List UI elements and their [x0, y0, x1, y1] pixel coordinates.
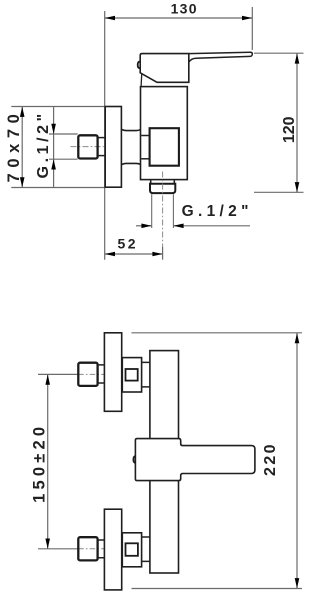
dim 150+-20 top ext line: [38, 373, 78, 375]
dim 150+-20 bottom ext line: [38, 548, 78, 550]
label G.1/2 left down arrow: [51, 124, 56, 134]
dim 150+-20 bottom arrow: [45, 539, 50, 549]
dim 130 right ext line: [251, 7, 253, 50]
neck fitting-to-flange bottom line: [98, 155, 105, 157]
dim 52 line: [105, 253, 163, 255]
outlet centerline solid lower part (52 right ext): [162, 247, 164, 260]
outlet collar (side view): [151, 180, 175, 183]
bottom connector block (front view): [122, 533, 141, 567]
dim 220 top arrow: [295, 333, 300, 343]
label G.1/2 left up arrow: [51, 159, 56, 169]
top wall flange (front view): [104, 333, 121, 412]
top inlet centerline (front view): [78, 373, 104, 375]
bottom inlet centerline (front view): [78, 548, 104, 550]
body (side view): [141, 87, 188, 180]
svg-text:130: 130: [171, 1, 198, 17]
outlet centerline vertical: [162, 172, 164, 248]
inlet fitting (side view, thick square): [78, 135, 97, 158]
label G.1/2 bottom leader right tail: [174, 225, 250, 227]
body (front view): [150, 351, 179, 573]
dim 120 top arrow: [295, 53, 300, 63]
svg-text:220: 220: [262, 442, 279, 476]
dim 220 top ext line: [132, 332, 303, 334]
outlet nut (side view, thick): [150, 184, 175, 193]
svg-text:52: 52: [118, 235, 139, 251]
dim 130 left arrow: [105, 16, 115, 21]
top connector block (front view): [122, 358, 141, 392]
dim 130 right arrow: [242, 16, 252, 21]
label G.1/2 left leader vertical: [53, 107, 55, 188]
bottom neck connector-to-body lines: [142, 537, 150, 561]
dim 52 left arrow: [105, 252, 115, 257]
wall flange (side view): [105, 107, 121, 188]
dim 70x70 top arrow: [20, 107, 25, 117]
svg-text:G.1/2": G.1/2": [35, 110, 52, 178]
top connector inner square: [126, 369, 138, 381]
dim 220 bottom arrow: [295, 578, 300, 588]
bottom wall flange (front view): [104, 509, 121, 590]
handle indicator bump (front view): [133, 456, 135, 463]
svg-text:G.1/2": G.1/2": [182, 203, 253, 220]
dim 220 bottom ext line: [132, 588, 303, 590]
body-to-square bottom line: [141, 158, 149, 160]
cartridge neck left line: [140, 74, 143, 86]
dim 150+-20 line: [47, 374, 49, 548]
neck fitting-to-flange top line: [98, 137, 105, 139]
svg-text:70x70: 70x70: [5, 109, 23, 183]
pipe flange-to-body top line: [122, 129, 140, 130]
dim 220 line: [296, 333, 298, 588]
inlet centerline (side view): [71, 146, 104, 148]
shower outlet square (side view, thick): [150, 128, 179, 166]
handle base (side view): [140, 54, 189, 83]
label G.1/2 left top ext (inlet thread top): [49, 133, 78, 135]
dim 120 top ext line: [254, 52, 304, 54]
body-to-square top line: [141, 135, 149, 137]
label G.1/2 bottom right-pointing arrow: [141, 224, 151, 229]
dim 70x70 top ext line: [11, 106, 104, 108]
bottom connector inner square: [126, 543, 138, 556]
dim 130 left ext line (also 52 dim left ext, runs through flange edge): [104, 11, 106, 260]
dim 120 bottom ext line: [254, 191, 304, 193]
label G.1/2 bottom left-pointing arrow: [173, 224, 183, 229]
dim 120 bottom arrow: [295, 182, 300, 192]
pipe flange-to-body bottom line: [122, 163, 140, 164]
handle block (front view): [135, 439, 255, 481]
dim 70x70 bottom ext line: [11, 187, 104, 189]
dim 130 line: [105, 17, 253, 19]
label G.1/2 bottom leader left tail: [136, 225, 151, 227]
outlet thread right ext line: [172, 194, 174, 228]
dim 52 right arrow: [152, 252, 162, 257]
dim 150+-20 top arrow: [45, 375, 50, 385]
handle indicator bump (side view): [138, 62, 140, 69]
dim 120 line: [296, 53, 298, 192]
top neck connector-to-body lines: [142, 362, 150, 387]
top neck fitting-to-flange lines: [98, 365, 104, 383]
bottom inlet fitting (front view, thick): [78, 537, 97, 560]
svg-text:150±20: 150±20: [30, 423, 48, 503]
bottom neck fitting-to-flange lines: [98, 540, 104, 558]
label G.1/2 left bottom ext (inlet thread bottom): [49, 158, 78, 160]
outlet thread left ext line: [151, 194, 153, 228]
top inlet fitting (front view, thick): [78, 363, 97, 386]
dim 70x70 line: [21, 107, 23, 188]
svg-text:120: 120: [281, 116, 298, 143]
lever arm (side view): [189, 52, 252, 62]
dim 70x70 bottom arrow: [20, 177, 25, 187]
